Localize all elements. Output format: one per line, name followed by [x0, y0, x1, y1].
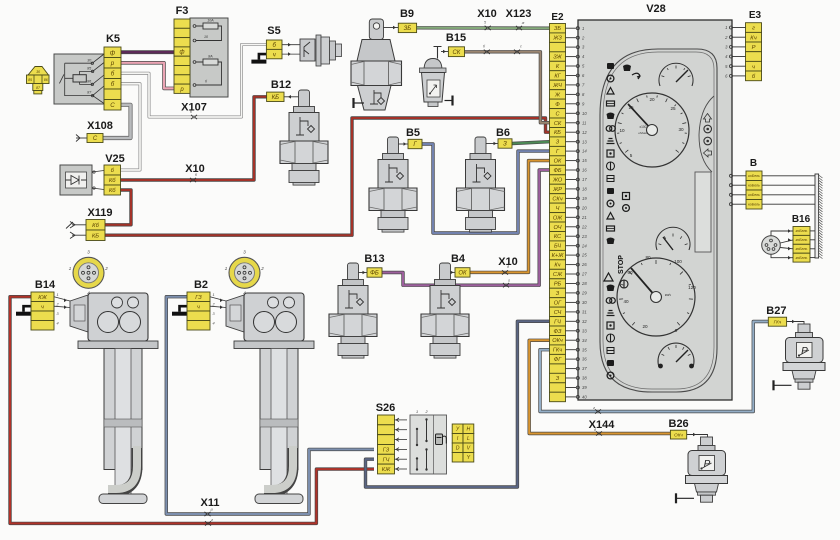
svg-text:КЖ: КЖ: [38, 295, 47, 301]
svg-text:ч: ч: [752, 64, 755, 70]
svg-text:20: 20: [581, 205, 587, 210]
svg-text:С: С: [110, 102, 115, 109]
svg-text:коБель: коБель: [796, 238, 808, 242]
svg-text:37: 37: [582, 366, 587, 371]
svg-text:КБ: КБ: [272, 95, 280, 101]
svg-text:30: 30: [36, 70, 40, 74]
svg-text:З: З: [556, 140, 560, 146]
svg-text:20: 20: [649, 97, 655, 102]
svg-text:B4: B4: [451, 253, 466, 265]
svg-text:B: B: [750, 158, 757, 169]
svg-text:коБель: коБель: [748, 174, 760, 178]
svg-text:ф: ф: [179, 50, 184, 56]
svg-text:2: 2: [104, 266, 108, 271]
svg-text:коБель: коБель: [748, 193, 760, 197]
svg-text:КС: КС: [554, 234, 562, 240]
svg-text:22: 22: [581, 224, 587, 229]
svg-text:B26: B26: [669, 418, 689, 430]
svg-text:СК: СК: [554, 121, 562, 127]
svg-text:г: г: [752, 26, 755, 32]
svg-text:S26: S26: [376, 402, 396, 414]
svg-text:11: 11: [582, 120, 586, 125]
svg-text:ч: ч: [41, 304, 44, 310]
svg-text:18: 18: [582, 187, 587, 192]
svg-text:ОЧ: ОЧ: [554, 225, 562, 231]
svg-text:ЗБ: ЗБ: [554, 26, 561, 32]
svg-text:ч: ч: [197, 304, 200, 310]
svg-text:г: г: [211, 518, 213, 522]
svg-text:СЖ: СЖ: [553, 272, 563, 278]
svg-text:X10: X10: [477, 8, 497, 20]
svg-text:B6: B6: [496, 127, 510, 139]
svg-text:Y: Y: [467, 455, 471, 461]
svg-text:10: 10: [619, 128, 625, 133]
svg-text:80: 80: [645, 255, 651, 260]
svg-text:B15: B15: [446, 32, 466, 44]
svg-text:ГЧ: ГЧ: [554, 319, 561, 325]
svg-text:H: H: [467, 427, 471, 433]
svg-text:K5: K5: [106, 33, 120, 45]
svg-text:Ф: Ф: [555, 102, 560, 108]
svg-text:ОЖ: ОЖ: [553, 215, 563, 221]
svg-text:р: р: [110, 60, 115, 67]
svg-text:ОГ: ОГ: [554, 300, 562, 306]
svg-text:Кч: Кч: [554, 263, 560, 269]
svg-text:р: р: [179, 87, 184, 93]
svg-text:12: 12: [582, 130, 587, 135]
svg-text:X119: X119: [87, 207, 112, 219]
svg-text:15: 15: [582, 158, 587, 163]
svg-text:X10: X10: [185, 163, 205, 175]
svg-text:E2: E2: [551, 12, 564, 23]
svg-text:26: 26: [581, 262, 587, 267]
svg-text:ЖЗ: ЖЗ: [552, 36, 562, 42]
svg-text:B12: B12: [271, 79, 291, 91]
svg-text:БЧ: БЧ: [554, 244, 561, 250]
svg-text:25: 25: [581, 253, 587, 258]
svg-text:Ж: Ж: [554, 92, 561, 98]
svg-text:34: 34: [582, 338, 587, 343]
svg-text:28: 28: [581, 281, 587, 286]
svg-text:B9: B9: [400, 8, 414, 20]
svg-text:21: 21: [581, 215, 587, 220]
svg-text:STOP: STOP: [618, 255, 625, 274]
svg-text:коБель: коБель: [748, 184, 760, 188]
svg-text:КГ: КГ: [554, 74, 561, 80]
svg-text:ФГ: ФГ: [554, 357, 562, 363]
svg-text:г: г: [508, 279, 510, 283]
svg-text:б: б: [111, 81, 115, 88]
svg-text:38: 38: [582, 376, 587, 381]
svg-text:10А: 10А: [207, 19, 214, 23]
svg-text:D: D: [456, 446, 460, 452]
svg-text:8А: 8А: [208, 55, 213, 59]
svg-text:X108: X108: [87, 120, 113, 132]
svg-text:Кб: Кб: [92, 223, 99, 229]
svg-text:З: З: [556, 291, 560, 297]
svg-text:ЖЧ: ЖЧ: [552, 83, 562, 89]
svg-text:ОК: ОК: [458, 271, 467, 277]
svg-text:F3: F3: [176, 5, 189, 17]
svg-text:км/ч: км/ч: [665, 293, 671, 297]
svg-text:с: с: [520, 45, 522, 49]
svg-text:27: 27: [581, 272, 587, 277]
svg-text:КБ: КБ: [554, 130, 561, 136]
svg-text:10: 10: [204, 35, 208, 39]
svg-text:16: 16: [582, 168, 587, 173]
svg-text:З: З: [503, 142, 507, 148]
svg-text:ФБ: ФБ: [553, 168, 561, 174]
svg-text:ГКч: ГКч: [553, 348, 562, 354]
svg-text:13: 13: [582, 139, 587, 144]
svg-text:E3: E3: [749, 10, 762, 21]
svg-text:ф: ф: [110, 50, 115, 57]
svg-text:С: С: [93, 136, 98, 142]
svg-text:ФЗ: ФЗ: [554, 329, 562, 335]
svg-text:35: 35: [582, 347, 587, 352]
svg-text:ГЗ: ГЗ: [383, 447, 390, 453]
svg-text:1: 1: [416, 410, 418, 414]
svg-text:2: 2: [260, 266, 264, 271]
svg-text:39: 39: [582, 385, 587, 390]
svg-text:ГЗ: ГЗ: [195, 295, 202, 301]
svg-text:коБель: коБель: [748, 203, 760, 207]
svg-text:X123: X123: [506, 8, 532, 20]
svg-text:32: 32: [582, 319, 587, 324]
svg-text:ОКч: ОКч: [552, 338, 563, 344]
svg-text:85: 85: [28, 78, 32, 82]
svg-text:30: 30: [678, 127, 684, 132]
svg-text:1: 1: [213, 293, 215, 297]
svg-text:31: 31: [582, 310, 587, 315]
svg-text:10: 10: [582, 111, 587, 116]
svg-text:86: 86: [87, 80, 91, 84]
svg-text:СКч: СКч: [552, 196, 562, 202]
svg-text:23: 23: [581, 234, 587, 239]
svg-text:ОК: ОК: [554, 159, 562, 165]
svg-text:B16: B16: [792, 214, 811, 225]
svg-text:ж: ж: [521, 21, 525, 25]
svg-text:29: 29: [581, 291, 587, 296]
svg-text:коБель: коБель: [796, 256, 808, 260]
svg-text:РБ: РБ: [554, 282, 562, 288]
svg-text:б: б: [111, 71, 115, 78]
svg-text:4: 4: [57, 322, 59, 326]
svg-text:СЧ: СЧ: [554, 310, 562, 316]
svg-text:X107: X107: [181, 102, 207, 114]
svg-text:40: 40: [582, 395, 587, 400]
svg-text:B27: B27: [766, 305, 786, 317]
svg-text:S5: S5: [267, 25, 280, 37]
svg-text:24: 24: [581, 243, 587, 248]
svg-text:B13: B13: [364, 253, 384, 265]
svg-text:ЖО: ЖО: [552, 178, 563, 184]
svg-text:86: 86: [44, 78, 48, 82]
svg-text:100: 100: [674, 259, 682, 264]
svg-text:г: г: [593, 406, 595, 410]
svg-text:ЖР: ЖР: [552, 187, 562, 193]
svg-text:ч: ч: [273, 52, 276, 58]
svg-text:L: L: [467, 436, 470, 442]
svg-text:З: З: [556, 376, 560, 382]
svg-text:B14: B14: [35, 279, 56, 291]
svg-text:ФБ: ФБ: [370, 271, 379, 277]
svg-text:85: 85: [87, 66, 91, 70]
svg-text:Ч: Ч: [556, 206, 560, 212]
svg-text:ЗБ: ЗБ: [404, 26, 412, 32]
svg-text:17: 17: [582, 177, 587, 182]
svg-text:X10: X10: [498, 256, 518, 268]
svg-text:25: 25: [670, 106, 676, 111]
svg-text:V28: V28: [646, 3, 666, 15]
svg-text:x100: x100: [640, 125, 647, 129]
svg-text:87: 87: [36, 86, 40, 90]
svg-text:X11: X11: [201, 497, 220, 509]
svg-text:КЖ: КЖ: [382, 467, 391, 473]
svg-text:B2: B2: [194, 279, 208, 291]
svg-text:ОКч: ОКч: [674, 432, 683, 437]
svg-text:ГКч: ГКч: [774, 319, 782, 324]
svg-text:4: 4: [213, 322, 215, 326]
svg-text:0: 0: [675, 328, 678, 333]
svg-text:Р: Р: [752, 45, 756, 51]
svg-text:Кч: Кч: [750, 35, 756, 41]
svg-text:30: 30: [582, 300, 587, 305]
svg-text:5: 5: [630, 153, 633, 158]
svg-text:1: 1: [57, 293, 59, 297]
svg-text:коБель: коБель: [796, 247, 808, 251]
svg-text:1: 1: [725, 25, 727, 30]
svg-text:К+Ж: К+Ж: [552, 253, 565, 259]
svg-text:14: 14: [582, 149, 587, 154]
svg-text:коБель: коБель: [796, 229, 808, 233]
svg-text:40: 40: [623, 299, 629, 304]
svg-text:33: 33: [582, 328, 587, 333]
svg-text:B5: B5: [406, 127, 420, 139]
svg-text:120: 120: [688, 285, 696, 290]
svg-text:60: 60: [627, 270, 633, 275]
svg-text:V25: V25: [105, 153, 125, 165]
svg-text:Кб: Кб: [109, 178, 116, 184]
svg-text:ГЧ: ГЧ: [383, 457, 390, 463]
svg-text:КБ: КБ: [92, 233, 99, 239]
svg-text:ЗЖ: ЗЖ: [553, 55, 562, 61]
svg-text:Кб: Кб: [109, 188, 116, 194]
svg-text:X144: X144: [589, 419, 616, 431]
svg-text:V: V: [467, 446, 471, 452]
svg-text:СК: СК: [452, 50, 460, 56]
svg-text:20: 20: [642, 324, 648, 329]
svg-text:30: 30: [87, 58, 91, 62]
svg-text:1: 1: [582, 26, 584, 31]
svg-text:19: 19: [582, 196, 587, 201]
svg-text:36: 36: [582, 357, 587, 362]
